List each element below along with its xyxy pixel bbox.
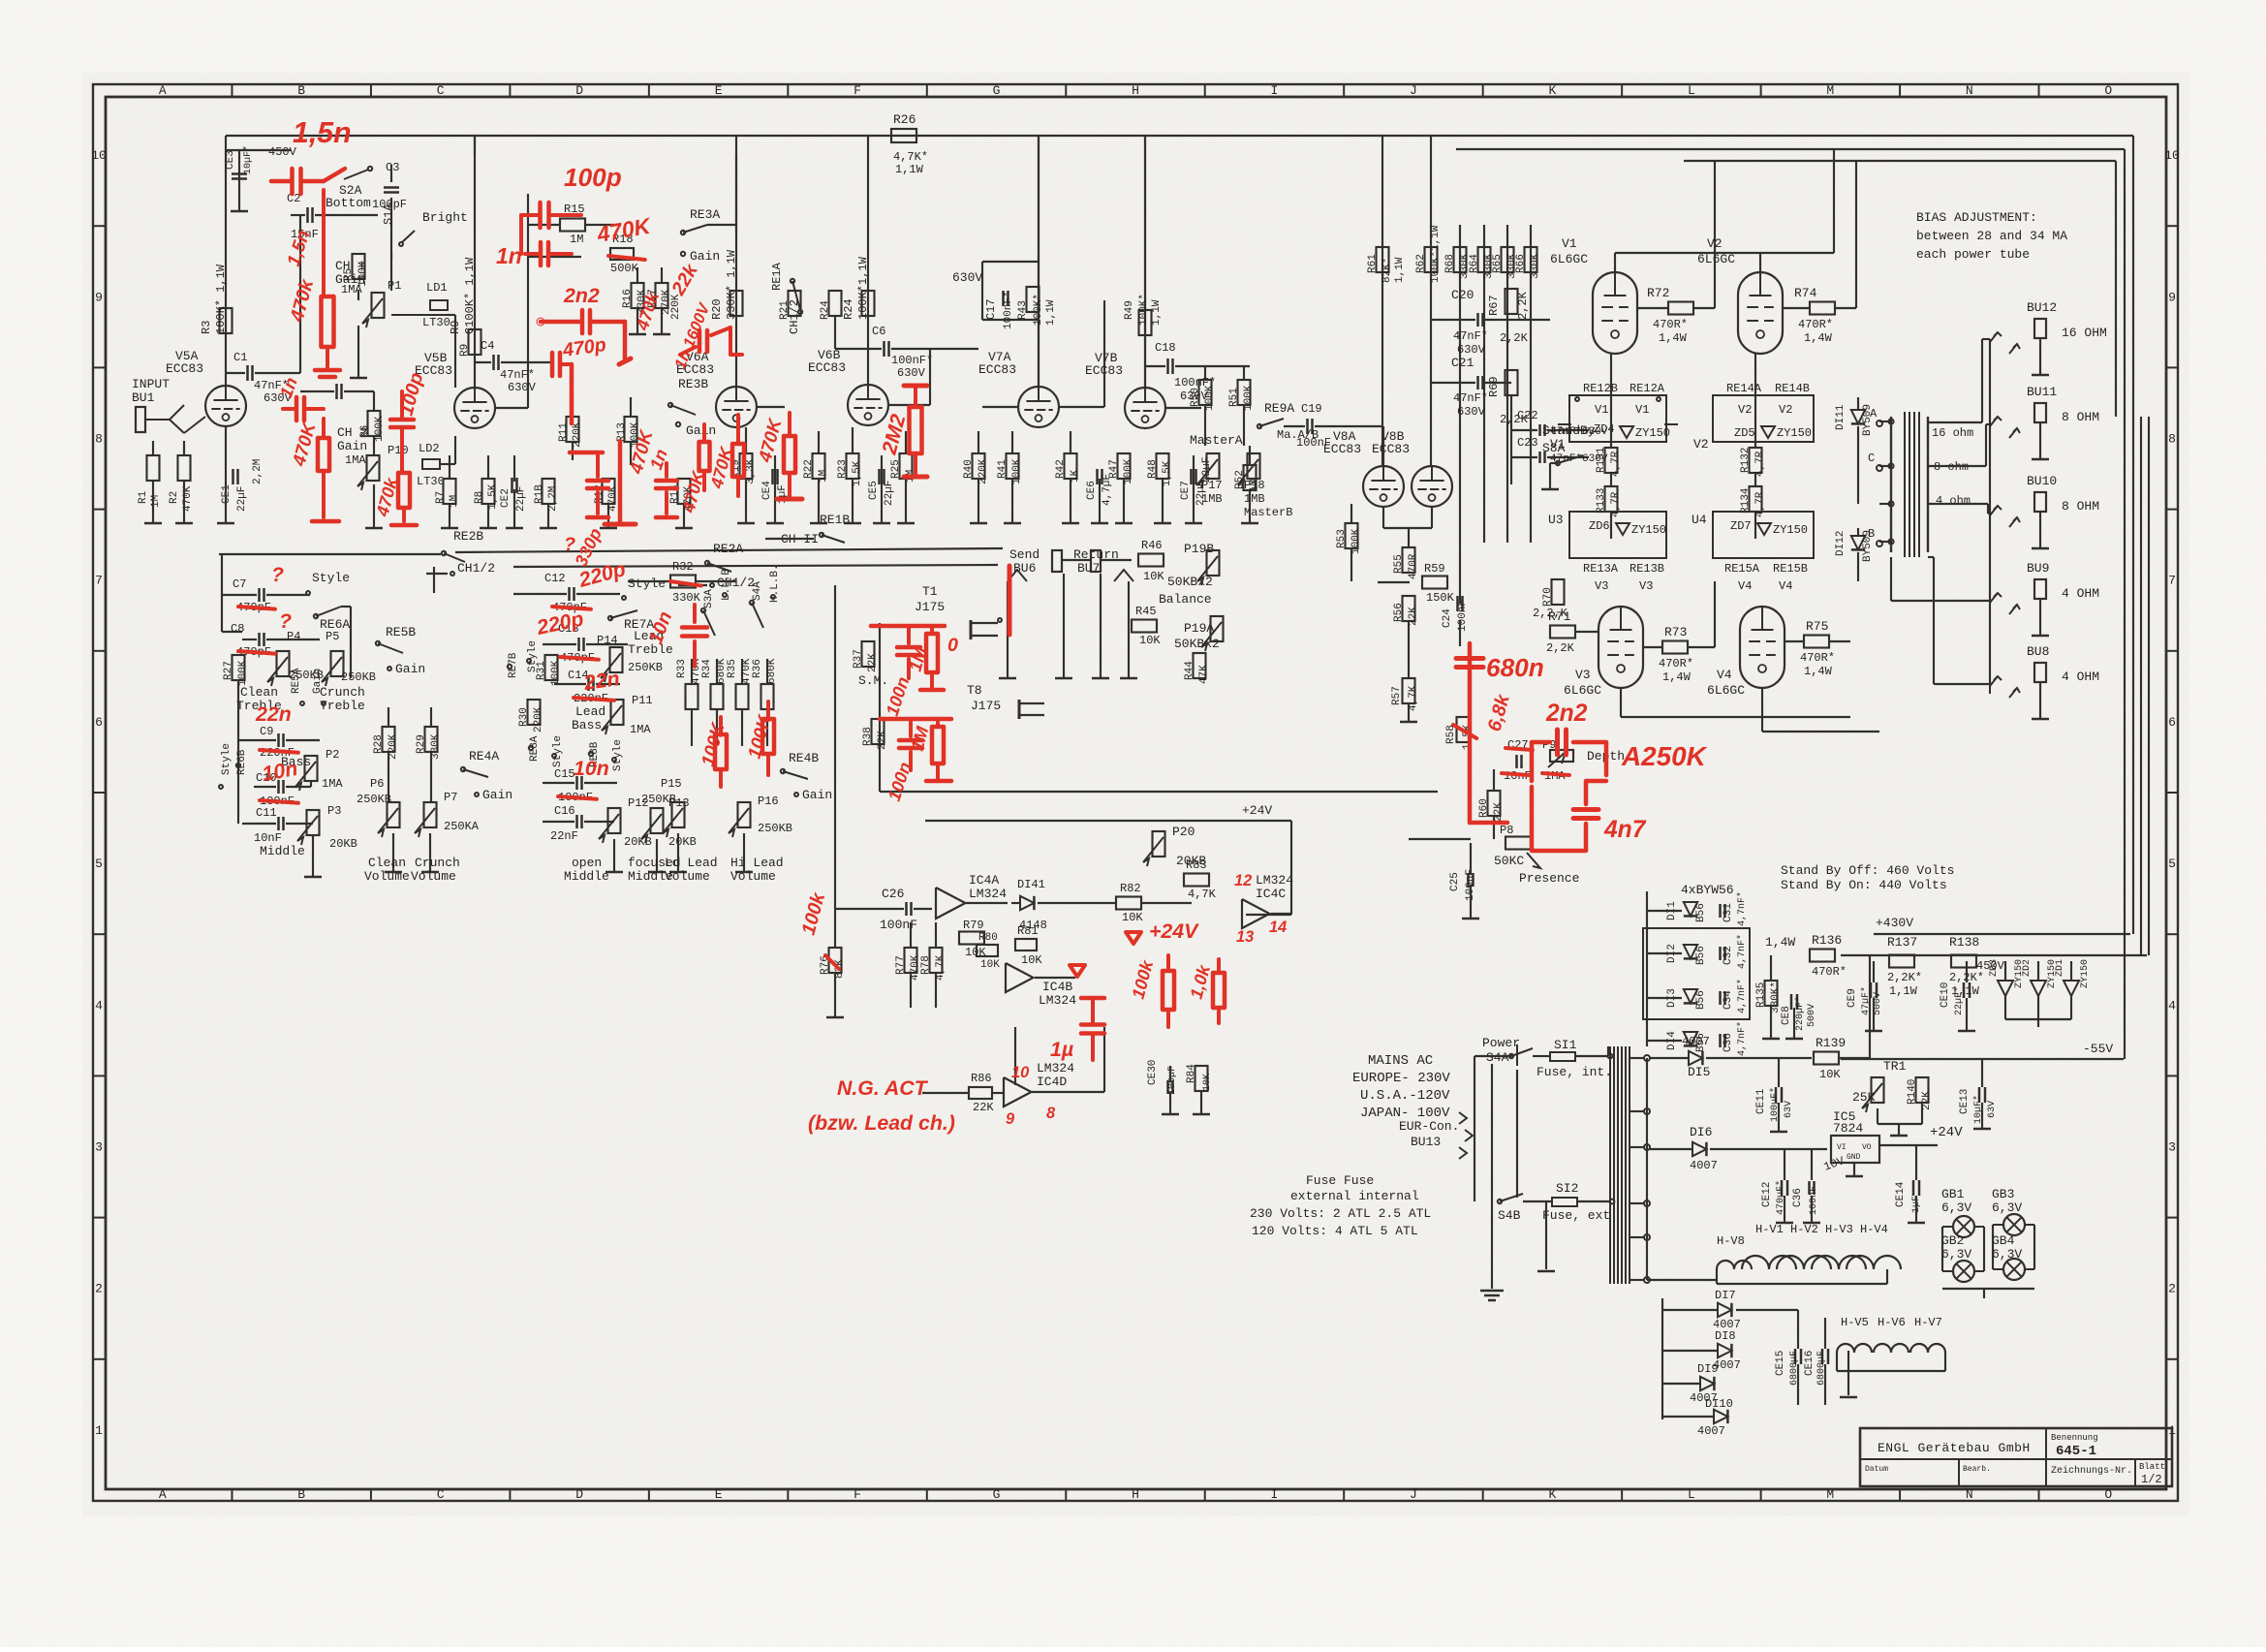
svg-text:0: 0 bbox=[947, 635, 958, 656]
svg-text:22K: 22K bbox=[867, 653, 879, 672]
svg-text:S4B: S4B bbox=[1498, 1208, 1521, 1223]
svg-text:4: 4 bbox=[95, 998, 103, 1013]
svg-text:150K: 150K bbox=[1426, 591, 1455, 605]
svg-text:4: 4 bbox=[2168, 998, 2176, 1013]
svg-text:R30: R30 bbox=[518, 707, 530, 727]
svg-text:N: N bbox=[1966, 83, 1973, 98]
svg-text:B56: B56 bbox=[1695, 990, 1707, 1010]
svg-text:StandBy: StandBy bbox=[1542, 423, 1596, 438]
svg-text:470R*: 470R* bbox=[1800, 651, 1835, 665]
svg-text:Ma.A/B: Ma.A/B bbox=[1277, 428, 1319, 442]
svg-text:Zeichnungs-Nr.: Zeichnungs-Nr. bbox=[2051, 1465, 2132, 1477]
svg-text:22K: 22K bbox=[973, 1101, 994, 1114]
svg-text:MAINS AC: MAINS AC bbox=[1368, 1053, 1433, 1069]
svg-text:25K: 25K bbox=[1852, 1090, 1876, 1105]
svg-text:47K: 47K bbox=[1198, 665, 1210, 684]
svg-text:R3: R3 bbox=[200, 321, 213, 334]
svg-text:Gain: Gain bbox=[337, 439, 367, 453]
svg-text:R86: R86 bbox=[971, 1072, 992, 1085]
svg-text:Style: Style bbox=[612, 739, 624, 771]
svg-text:Style: Style bbox=[312, 571, 350, 585]
svg-text:20KB: 20KB bbox=[668, 835, 697, 849]
svg-text:10: 10 bbox=[1011, 1064, 1029, 1081]
svg-text:P10: P10 bbox=[388, 444, 409, 457]
svg-text:C12: C12 bbox=[544, 572, 566, 585]
svg-text:B56: B56 bbox=[1695, 946, 1707, 965]
svg-text:50KC: 50KC bbox=[1494, 854, 1524, 868]
svg-text:H: H bbox=[1132, 1487, 1139, 1502]
svg-text:open: open bbox=[572, 856, 602, 870]
svg-text:Gain: Gain bbox=[802, 788, 832, 802]
svg-text:CE5: CE5 bbox=[868, 481, 880, 500]
svg-text:470R: 470R bbox=[1408, 553, 1419, 579]
svg-text:100K*1,1W: 100K*1,1W bbox=[856, 256, 870, 320]
svg-text:+430V: +430V bbox=[1876, 916, 1913, 930]
svg-text:P11: P11 bbox=[632, 694, 653, 707]
svg-text:C: C bbox=[437, 1487, 445, 1502]
svg-text:Clean: Clean bbox=[240, 685, 278, 700]
svg-text:1: 1 bbox=[95, 1423, 103, 1438]
svg-text:330K: 330K bbox=[1530, 253, 1541, 279]
svg-text:M: M bbox=[1826, 83, 1834, 98]
svg-text:IC4D: IC4D bbox=[1037, 1075, 1067, 1089]
svg-text:A250K: A250K bbox=[1621, 741, 1708, 771]
svg-text:R61: R61 bbox=[1367, 254, 1379, 273]
svg-text:47nF*: 47nF* bbox=[500, 368, 535, 382]
svg-text:A: A bbox=[159, 1487, 167, 1502]
svg-text:6,3V: 6,3V bbox=[1992, 1200, 2022, 1215]
svg-text:R49: R49 bbox=[1124, 300, 1135, 320]
svg-text:RE12A: RE12A bbox=[1630, 382, 1665, 395]
svg-text:1/2: 1/2 bbox=[2141, 1473, 2162, 1486]
svg-text:C23: C23 bbox=[1517, 436, 1538, 450]
svg-text:CE8: CE8 bbox=[1781, 1006, 1792, 1025]
svg-text:EUROPE- 230V: EUROPE- 230V bbox=[1352, 1071, 1450, 1086]
svg-text:V2: V2 bbox=[1693, 437, 1709, 452]
svg-text:ZD6: ZD6 bbox=[1589, 519, 1610, 533]
svg-text:K: K bbox=[1548, 1487, 1556, 1502]
svg-text:LT30: LT30 bbox=[422, 316, 450, 329]
svg-text:250KB: 250KB bbox=[341, 670, 376, 684]
svg-text:T8: T8 bbox=[967, 683, 982, 698]
svg-text:LM324: LM324 bbox=[969, 887, 1007, 901]
svg-text:330K* 1,1W: 330K* 1,1W bbox=[725, 249, 738, 320]
svg-text:1,1W: 1,1W bbox=[1045, 299, 1057, 326]
svg-text:CH 1: CH 1 bbox=[335, 259, 365, 273]
svg-text:230 Volts: 2 ATL 2.5 ATL: 230 Volts: 2 ATL 2.5 ATL bbox=[1250, 1206, 1431, 1221]
svg-text:CE16: CE16 bbox=[1804, 1351, 1816, 1376]
svg-text:R43: R43 bbox=[1017, 300, 1029, 320]
svg-text:Volume: Volume bbox=[730, 869, 776, 884]
svg-text:C3: C3 bbox=[386, 161, 399, 174]
svg-text:C: C bbox=[437, 83, 445, 98]
svg-text:Bright: Bright bbox=[422, 210, 468, 225]
svg-text:+24V: +24V bbox=[1149, 920, 1199, 943]
svg-text:RE4B: RE4B bbox=[789, 751, 819, 765]
svg-text:Gain: Gain bbox=[482, 788, 512, 802]
svg-text:?: ? bbox=[271, 563, 284, 586]
svg-text:Crunch: Crunch bbox=[415, 856, 460, 870]
svg-text:1M: 1M bbox=[150, 495, 162, 508]
svg-text:R34: R34 bbox=[701, 659, 713, 678]
svg-text:C11: C11 bbox=[256, 806, 277, 820]
svg-text:VI: VI bbox=[1837, 1143, 1847, 1152]
svg-text:Bass: Bass bbox=[572, 718, 602, 732]
svg-text:DI6: DI6 bbox=[1690, 1125, 1712, 1139]
svg-text:S8A: S8A bbox=[1542, 441, 1566, 455]
svg-text:R68: R68 bbox=[1444, 254, 1456, 273]
svg-text:4007: 4007 bbox=[1682, 1035, 1710, 1048]
svg-text:C19: C19 bbox=[1301, 402, 1322, 416]
svg-text:R66: R66 bbox=[1515, 254, 1527, 273]
svg-text:BU11: BU11 bbox=[2027, 385, 2057, 399]
svg-text:RE13A: RE13A bbox=[1583, 562, 1619, 576]
svg-text:R69: R69 bbox=[1487, 376, 1501, 397]
svg-text:I: I bbox=[1271, 83, 1279, 98]
svg-text:ZY150: ZY150 bbox=[1635, 426, 1670, 440]
svg-text:CE12: CE12 bbox=[1761, 1182, 1773, 1207]
svg-text:R60: R60 bbox=[1478, 798, 1490, 818]
svg-text:4,7K*: 4,7K* bbox=[893, 150, 928, 164]
svg-text:R24: R24 bbox=[842, 298, 855, 320]
svg-text:+24V: +24V bbox=[1930, 1125, 1963, 1140]
svg-text:6L6GC: 6L6GC bbox=[1550, 252, 1588, 266]
svg-text:RE2B: RE2B bbox=[453, 529, 483, 544]
svg-text:ZD7: ZD7 bbox=[1730, 519, 1752, 533]
svg-text:Fuse Fuse: Fuse Fuse bbox=[1306, 1173, 1374, 1188]
svg-text:9: 9 bbox=[95, 290, 103, 304]
svg-text:P15: P15 bbox=[661, 777, 682, 791]
svg-text:C34: C34 bbox=[1723, 990, 1734, 1010]
svg-text:DI41: DI41 bbox=[1017, 878, 1045, 891]
svg-text:R40: R40 bbox=[963, 459, 975, 479]
svg-text:E: E bbox=[715, 83, 723, 98]
svg-text:CE2: CE2 bbox=[500, 488, 512, 508]
svg-text:R71: R71 bbox=[1548, 609, 1571, 624]
svg-text:GB2: GB2 bbox=[1941, 1233, 1964, 1248]
svg-text:C31: C31 bbox=[1723, 903, 1734, 922]
svg-text:CE4: CE4 bbox=[761, 481, 773, 500]
svg-text:R133: R133 bbox=[1596, 488, 1607, 514]
svg-text:U3: U3 bbox=[1548, 513, 1564, 527]
svg-text:1MA: 1MA bbox=[345, 453, 366, 467]
svg-text:CH1/2: CH1/2 bbox=[457, 561, 495, 576]
svg-text:4007: 4007 bbox=[1690, 1159, 1718, 1172]
svg-text:R62: R62 bbox=[1415, 254, 1427, 273]
svg-text:100nF: 100nF bbox=[1809, 1186, 1819, 1215]
svg-text:470R*: 470R* bbox=[1812, 965, 1847, 979]
svg-text:K: K bbox=[1548, 83, 1556, 98]
svg-text:E: E bbox=[715, 1487, 723, 1502]
svg-text:C25: C25 bbox=[1449, 872, 1461, 891]
svg-text:C24: C24 bbox=[1442, 608, 1453, 628]
svg-text:10K: 10K bbox=[1819, 1068, 1841, 1081]
svg-text:R47: R47 bbox=[1108, 459, 1120, 479]
svg-text:H-V4: H-V4 bbox=[1860, 1223, 1888, 1236]
svg-text:RE14A: RE14A bbox=[1726, 382, 1762, 395]
svg-text:CE13: CE13 bbox=[1959, 1089, 1971, 1114]
svg-text:Volume: Volume bbox=[665, 869, 710, 884]
svg-text:100K*1,1W: 100K*1,1W bbox=[1430, 225, 1442, 283]
svg-text:RE1B: RE1B bbox=[820, 513, 850, 527]
svg-text:8 OHM: 8 OHM bbox=[2062, 410, 2099, 424]
svg-text:220K: 220K bbox=[533, 706, 544, 732]
svg-text:Volume: Volume bbox=[411, 869, 456, 884]
svg-text:R55: R55 bbox=[1393, 554, 1405, 574]
svg-text:R52: R52 bbox=[1234, 470, 1246, 489]
svg-text:S4A: S4A bbox=[1486, 1050, 1509, 1065]
svg-text:Treble: Treble bbox=[628, 642, 673, 657]
svg-text:3: 3 bbox=[2168, 1140, 2176, 1155]
svg-text:22µF: 22µF bbox=[515, 486, 527, 512]
svg-text:7: 7 bbox=[95, 574, 103, 588]
svg-text:12: 12 bbox=[1234, 872, 1252, 889]
svg-text:R36: R36 bbox=[752, 659, 763, 678]
svg-text:7: 7 bbox=[2168, 574, 2176, 588]
svg-text:C18: C18 bbox=[1155, 341, 1176, 355]
svg-text:INPUT: INPUT bbox=[132, 377, 170, 391]
svg-text:CE14: CE14 bbox=[1895, 1181, 1907, 1207]
svg-text:R7: R7 bbox=[435, 491, 447, 504]
svg-text:BU7: BU7 bbox=[1077, 561, 1100, 576]
svg-text:7824: 7824 bbox=[1833, 1121, 1863, 1136]
svg-text:1,1W: 1,1W bbox=[895, 163, 924, 176]
svg-text:(bzw. Lead ch.): (bzw. Lead ch.) bbox=[808, 1111, 955, 1135]
svg-text:100µF: 100µF bbox=[1167, 1066, 1178, 1095]
svg-text:CE3: CE3 bbox=[225, 150, 236, 170]
svg-text:BY509: BY509 bbox=[1862, 530, 1874, 562]
svg-text:A: A bbox=[159, 83, 167, 98]
svg-text:R21: R21 bbox=[779, 300, 791, 320]
svg-text:RE1A: RE1A bbox=[770, 262, 784, 291]
svg-text:U.S.A.-120V: U.S.A.-120V bbox=[1360, 1088, 1450, 1104]
svg-text:SI2: SI2 bbox=[1556, 1181, 1578, 1196]
svg-text:Lead: Lead bbox=[575, 704, 605, 719]
svg-text:TR1: TR1 bbox=[1883, 1059, 1907, 1074]
svg-text:V4: V4 bbox=[1779, 579, 1792, 593]
svg-text:C4: C4 bbox=[481, 339, 494, 353]
svg-text:20KB: 20KB bbox=[329, 837, 357, 851]
svg-text:ZD1: ZD1 bbox=[2055, 959, 2065, 977]
svg-text:O: O bbox=[2104, 1487, 2112, 1502]
svg-text:R1: R1 bbox=[138, 490, 149, 504]
svg-text:500K: 500K bbox=[610, 262, 639, 275]
svg-text:R6: R6 bbox=[359, 425, 371, 438]
svg-text:RE12B: RE12B bbox=[1583, 382, 1618, 395]
svg-text:5: 5 bbox=[95, 857, 103, 871]
svg-text:680K: 680K bbox=[766, 658, 778, 684]
svg-text:630V: 630V bbox=[952, 270, 982, 285]
svg-text:J175: J175 bbox=[915, 600, 945, 614]
svg-text:R136: R136 bbox=[1812, 933, 1842, 948]
svg-text:R11: R11 bbox=[558, 422, 570, 442]
svg-text:250KB: 250KB bbox=[357, 793, 391, 806]
svg-text:RE8A: RE8A bbox=[529, 735, 541, 762]
svg-text:BU12: BU12 bbox=[2027, 300, 2057, 315]
svg-text:ECC83: ECC83 bbox=[978, 362, 1016, 377]
svg-text:R75: R75 bbox=[1806, 619, 1828, 634]
svg-text:DI9: DI9 bbox=[1697, 1362, 1719, 1376]
svg-text:R65: R65 bbox=[1492, 254, 1504, 273]
svg-text:5: 5 bbox=[2168, 857, 2176, 871]
svg-text:R9: R9 bbox=[459, 344, 471, 357]
svg-text:RE2A: RE2A bbox=[713, 542, 743, 556]
svg-text:Datum: Datum bbox=[1865, 1465, 1888, 1474]
svg-text:CE9: CE9 bbox=[1847, 988, 1858, 1008]
svg-text:Balance: Balance bbox=[1159, 592, 1212, 607]
svg-text:6: 6 bbox=[2168, 715, 2176, 730]
svg-text:220µF*: 220µF* bbox=[1794, 996, 1806, 1031]
svg-text:V4: V4 bbox=[1717, 668, 1732, 682]
svg-text:10n: 10n bbox=[574, 757, 609, 780]
svg-text:U4: U4 bbox=[1692, 513, 1707, 527]
svg-text:Stand By Off: 460 Volts: Stand By Off: 460 Volts bbox=[1781, 863, 1954, 878]
svg-text:MasterB: MasterB bbox=[1244, 506, 1292, 519]
svg-text:R57: R57 bbox=[1391, 686, 1403, 705]
svg-text:8: 8 bbox=[1046, 1105, 1056, 1122]
svg-text:R140: R140 bbox=[1907, 1079, 1918, 1105]
svg-text:250KB: 250KB bbox=[641, 793, 676, 806]
svg-text:100K: 100K bbox=[550, 660, 562, 686]
svg-text:Benennung: Benennung bbox=[2051, 1433, 2098, 1443]
svg-text:B: B bbox=[297, 83, 305, 98]
svg-text:M: M bbox=[1826, 1487, 1834, 1502]
svg-text:R26: R26 bbox=[893, 112, 916, 127]
svg-text:1MB: 1MB bbox=[1244, 492, 1265, 506]
svg-text:2n2: 2n2 bbox=[1545, 701, 1588, 727]
svg-text:R28: R28 bbox=[373, 734, 385, 754]
svg-text:BU10: BU10 bbox=[2027, 474, 2057, 488]
svg-text:DI12: DI12 bbox=[1835, 531, 1847, 556]
svg-text:100K: 100K bbox=[374, 416, 386, 442]
svg-text:H-V6: H-V6 bbox=[1878, 1316, 1906, 1329]
svg-text:Gain: Gain bbox=[686, 423, 716, 438]
svg-text:BU9: BU9 bbox=[2027, 561, 2049, 576]
svg-text:R24: R24 bbox=[820, 300, 831, 320]
svg-text:IC4B: IC4B bbox=[1042, 980, 1072, 994]
svg-text:CE10: CE10 bbox=[1940, 982, 1951, 1008]
svg-text:ZY150: ZY150 bbox=[2080, 959, 2091, 988]
svg-text:C20: C20 bbox=[1451, 288, 1474, 302]
svg-text:14: 14 bbox=[1269, 919, 1287, 936]
svg-text:C26: C26 bbox=[882, 887, 904, 901]
svg-text:CE30: CE30 bbox=[1147, 1060, 1159, 1085]
svg-text:22µF: 22µF bbox=[884, 481, 895, 506]
svg-text:Gain: Gain bbox=[395, 662, 425, 676]
svg-text:P3: P3 bbox=[327, 804, 341, 818]
svg-text:R82: R82 bbox=[1120, 882, 1141, 895]
svg-text:R79: R79 bbox=[963, 919, 984, 932]
svg-text:100K*: 100K* bbox=[1138, 294, 1150, 326]
svg-text:ZY150: ZY150 bbox=[1631, 523, 1666, 537]
svg-text:ZY150: ZY150 bbox=[1773, 523, 1808, 537]
svg-text:IC4A: IC4A bbox=[969, 873, 999, 888]
svg-text:R33: R33 bbox=[676, 659, 688, 678]
svg-text:100p: 100p bbox=[564, 163, 622, 192]
svg-text:4 OHM: 4 OHM bbox=[2062, 586, 2099, 601]
svg-text:P1: P1 bbox=[388, 279, 401, 293]
svg-text:470R*: 470R* bbox=[1653, 318, 1688, 331]
svg-text:R13: R13 bbox=[616, 422, 628, 442]
svg-text:R59: R59 bbox=[1424, 562, 1445, 576]
svg-text:82K*: 82K* bbox=[1381, 258, 1393, 283]
svg-text:1MA: 1MA bbox=[322, 777, 343, 791]
svg-text:RE3B: RE3B bbox=[678, 377, 708, 391]
svg-text:I: I bbox=[1271, 1487, 1279, 1502]
svg-text:100nF: 100nF bbox=[1457, 600, 1469, 632]
svg-text:Crunch: Crunch bbox=[320, 685, 365, 700]
svg-text:C21: C21 bbox=[1451, 356, 1474, 370]
svg-text:Blatt: Blatt bbox=[2139, 1462, 2165, 1472]
svg-text:CE7: CE7 bbox=[1180, 481, 1192, 500]
svg-text:3: 3 bbox=[95, 1140, 103, 1155]
svg-text:C9: C9 bbox=[260, 725, 273, 738]
svg-text:G: G bbox=[993, 83, 1001, 98]
svg-text:250KB: 250KB bbox=[628, 661, 663, 674]
svg-text:2n2: 2n2 bbox=[563, 284, 600, 307]
svg-text:16 ohm: 16 ohm bbox=[1932, 426, 1973, 440]
svg-text:H-V8: H-V8 bbox=[1717, 1234, 1745, 1248]
svg-text:4007: 4007 bbox=[1697, 1424, 1725, 1438]
svg-text:each power tube: each power tube bbox=[1916, 247, 2030, 262]
svg-text:1,1W: 1,1W bbox=[1889, 984, 1918, 998]
svg-text:R64: R64 bbox=[1469, 254, 1480, 273]
svg-text:Bearb.: Bearb. bbox=[1963, 1465, 1991, 1474]
svg-text:Middle: Middle bbox=[260, 844, 305, 858]
svg-text:V1: V1 bbox=[1562, 236, 1577, 251]
svg-text:C6: C6 bbox=[872, 325, 885, 338]
svg-text:630V: 630V bbox=[1457, 405, 1486, 419]
svg-text:G: G bbox=[993, 1487, 1001, 1502]
svg-text:-55V: -55V bbox=[2083, 1042, 2113, 1056]
svg-text:Treble: Treble bbox=[320, 699, 365, 713]
svg-text:R56: R56 bbox=[1393, 603, 1405, 622]
svg-text:LM324: LM324 bbox=[1256, 873, 1293, 888]
svg-text:N: N bbox=[1966, 1487, 1973, 1502]
svg-text:P7: P7 bbox=[444, 791, 457, 804]
svg-text:Middle: Middle bbox=[564, 869, 609, 884]
svg-text:63V: 63V bbox=[1784, 1101, 1794, 1118]
svg-text:4,7nF*: 4,7nF* bbox=[1736, 979, 1748, 1013]
svg-text:4xBYW56: 4xBYW56 bbox=[1681, 883, 1734, 897]
svg-text:2,2K: 2,2K bbox=[1500, 331, 1529, 345]
svg-text:50KBx2: 50KBx2 bbox=[1167, 575, 1213, 589]
svg-text:250KB: 250KB bbox=[758, 822, 792, 835]
svg-text:GB1: GB1 bbox=[1941, 1187, 1965, 1201]
svg-text:P14: P14 bbox=[597, 634, 618, 647]
svg-text:C8: C8 bbox=[231, 622, 244, 636]
svg-text:LD1: LD1 bbox=[426, 281, 448, 295]
svg-text:Lo Lead: Lo Lead bbox=[665, 856, 718, 870]
svg-text:C22: C22 bbox=[1517, 409, 1538, 422]
svg-text:Style: Style bbox=[221, 743, 233, 775]
svg-text:8: 8 bbox=[2168, 432, 2176, 447]
svg-text:R139: R139 bbox=[1816, 1036, 1846, 1050]
svg-text:Power: Power bbox=[1482, 1036, 1520, 1050]
svg-text:P16: P16 bbox=[758, 795, 779, 808]
svg-text:100K* 1,1W: 100K* 1,1W bbox=[214, 264, 228, 334]
svg-text:P17: P17 bbox=[1201, 479, 1223, 492]
svg-text:BIAS ADJUSTMENT:: BIAS ADJUSTMENT: bbox=[1916, 210, 2037, 225]
svg-text:22nF: 22nF bbox=[550, 829, 578, 843]
svg-text:6L6GC: 6L6GC bbox=[1707, 683, 1745, 698]
svg-text:ENGL Gerätebau GmbH: ENGL Gerätebau GmbH bbox=[1878, 1441, 2031, 1455]
svg-text:P8: P8 bbox=[1500, 824, 1513, 837]
svg-text:10K: 10K bbox=[980, 959, 1000, 971]
svg-text:S1A: S1A bbox=[382, 203, 395, 225]
svg-text:B: B bbox=[297, 1487, 305, 1502]
svg-text:J: J bbox=[1410, 1487, 1417, 1502]
